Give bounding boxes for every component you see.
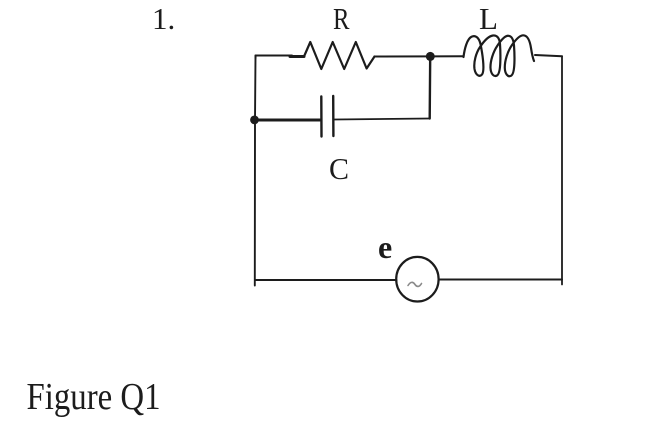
svg-text:R: R — [333, 1, 350, 36]
svg-text:C: C — [329, 151, 349, 186]
svg-text:1.: 1. — [152, 1, 175, 36]
svg-text:L: L — [479, 1, 498, 36]
svg-text:e: e — [378, 229, 392, 265]
svg-text:Figure Q1: Figure Q1 — [27, 376, 161, 418]
